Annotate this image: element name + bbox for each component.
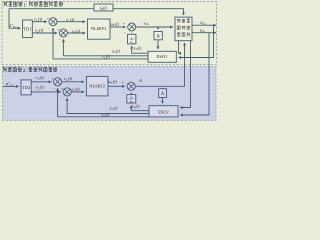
svg-text:NLSEF1: NLSEF1 (91, 26, 107, 31)
svg-text:NLSEF2: NLSEF2 (89, 84, 105, 89)
svg-text:TD2: TD2 (22, 85, 30, 90)
svg-text:1:: 1: (23, 3, 28, 9)
svg-text:2:: 2: (23, 68, 28, 74)
svg-text:A: A (157, 35, 161, 40)
svg-text:pca: pca (199, 27, 205, 33)
svg-text:1: 1 (130, 95, 132, 99)
svg-text:vcm: vcm (144, 20, 150, 26)
svg-text:f0(t): f0(t) (100, 5, 108, 11)
svg-text:ESO1: ESO1 (157, 54, 168, 59)
svg-text:TD1: TD1 (23, 26, 31, 31)
svg-text:λO2: λO2 (199, 20, 206, 26)
svg-text:1: 1 (131, 35, 133, 39)
svg-text:ESO2: ESO2 (158, 109, 169, 114)
